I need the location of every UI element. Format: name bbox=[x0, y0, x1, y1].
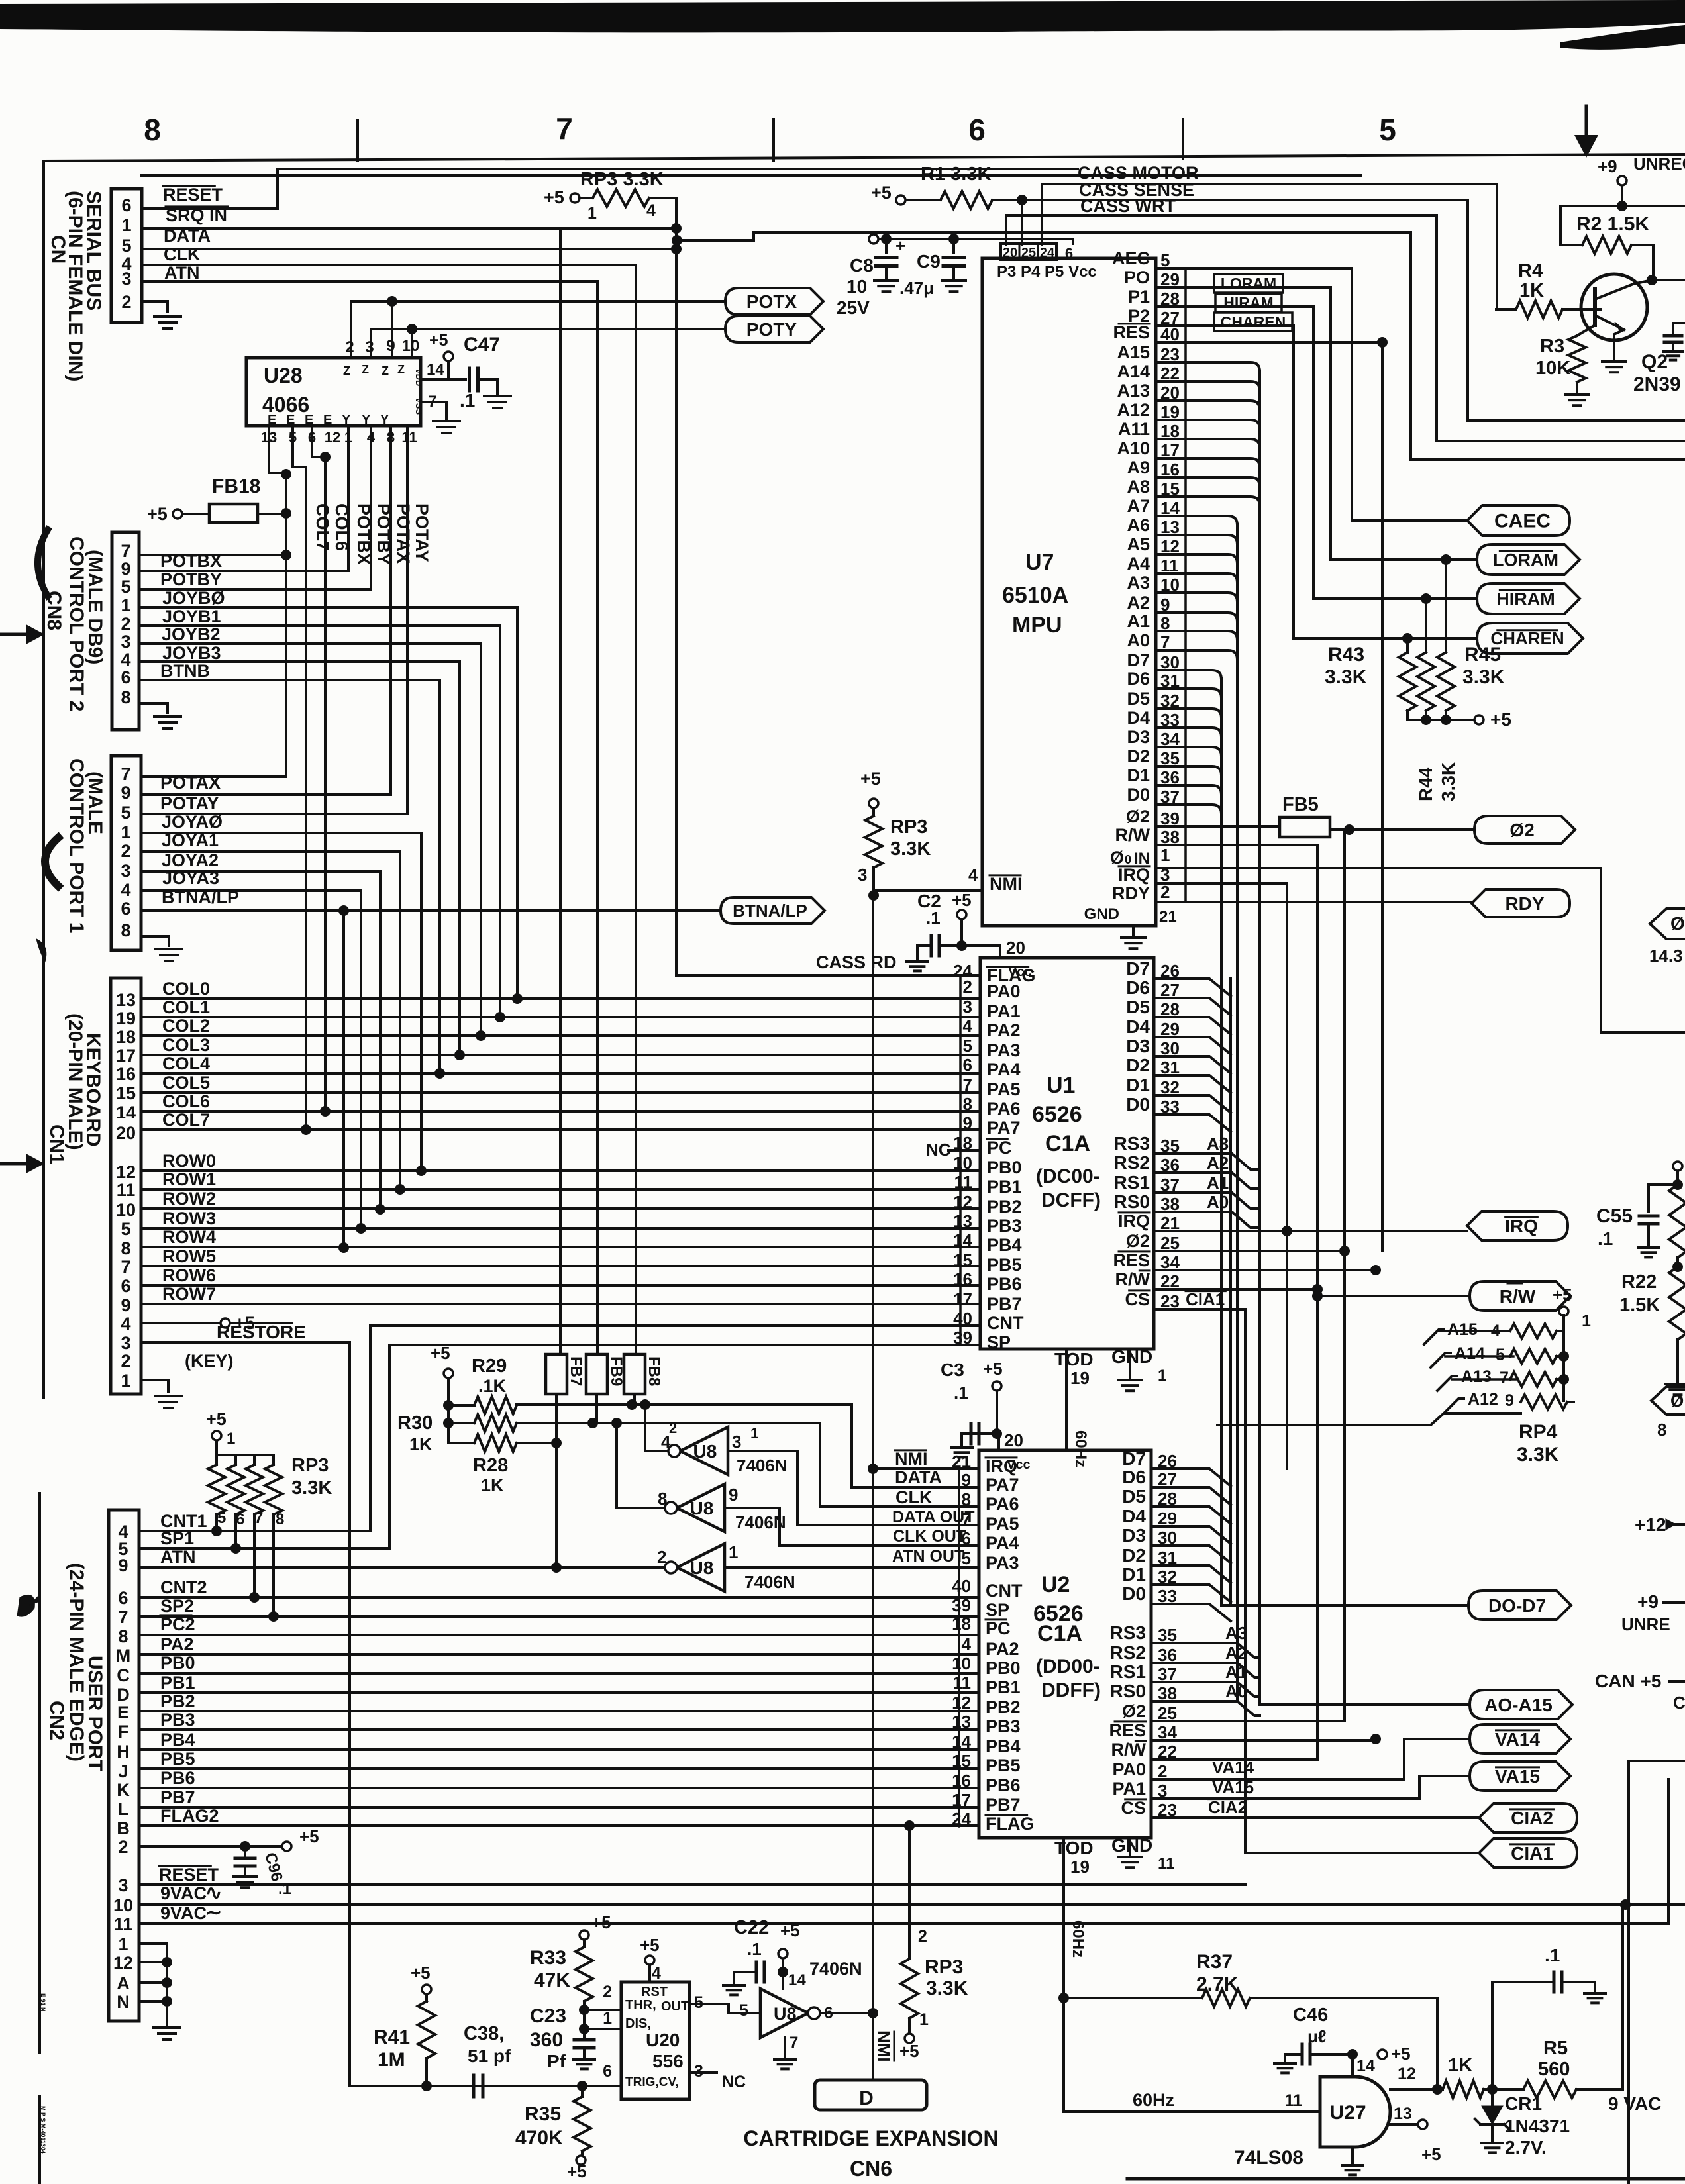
wire HIRAM net bbox=[1156, 307, 1313, 599]
U7 right pin ladder bbox=[1184, 268, 1187, 901]
svg-text:+: + bbox=[895, 236, 905, 256]
svg-text:VDD: VDD bbox=[414, 368, 424, 386]
svg-text:4: 4 bbox=[646, 201, 656, 220]
wire JOYB2 bbox=[139, 642, 481, 645]
svg-text:ROW4: ROW4 bbox=[162, 1227, 216, 1247]
flag VA14 bbox=[1470, 1724, 1570, 1754]
svg-text:DCFF): DCFF) bbox=[1041, 1189, 1101, 1211]
svg-text:+5: +5 bbox=[983, 1359, 1003, 1379]
svg-text:6: 6 bbox=[1065, 245, 1073, 262]
svg-text:Ø: Ø bbox=[1670, 913, 1685, 934]
svg-text:U8: U8 bbox=[690, 1558, 714, 1578]
svg-text:14: 14 bbox=[116, 1103, 136, 1122]
svg-text:A2: A2 bbox=[1127, 593, 1150, 613]
connector CN2 user port box bbox=[109, 1510, 139, 2021]
svg-text:PB2: PB2 bbox=[160, 1691, 195, 1711]
svg-text:CIA1: CIA1 bbox=[1511, 1843, 1553, 1863]
svg-text:47K: 47K bbox=[534, 1969, 570, 1991]
svg-text:U20: U20 bbox=[646, 2030, 680, 2050]
wire RESTORE bbox=[141, 1342, 350, 2086]
wire CHAREN net bbox=[1156, 326, 1294, 638]
svg-text:ROW6: ROW6 bbox=[162, 1266, 216, 1285]
svg-text:556: 556 bbox=[652, 2051, 684, 2071]
svg-text:D4: D4 bbox=[1122, 1506, 1146, 1526]
wire R30 row bbox=[517, 1422, 820, 1424]
svg-text:7: 7 bbox=[121, 1257, 130, 1277]
wire FB9 bottom bbox=[595, 1394, 598, 1423]
svg-text:R37: R37 bbox=[1196, 1951, 1233, 1973]
svg-text:PA2: PA2 bbox=[987, 1020, 1021, 1040]
svg-text:5: 5 bbox=[121, 803, 130, 822]
wire NMI row U2 bbox=[873, 1467, 979, 1470]
flag 14.3MHz clock partial bbox=[1650, 909, 1685, 939]
flag VA15 bbox=[1470, 1762, 1570, 1791]
wire COL2 bbox=[141, 1034, 980, 1037]
wire POTBY vertical bbox=[139, 426, 371, 589]
svg-text:P1: P1 bbox=[1128, 287, 1150, 307]
svg-text:60Hz: 60Hz bbox=[1069, 1920, 1087, 1958]
svg-text:7: 7 bbox=[118, 1607, 128, 1627]
AND gate U27 74LS08 bbox=[1320, 2077, 1390, 2147]
svg-text:R45: R45 bbox=[1464, 644, 1501, 666]
svg-text:E: E bbox=[323, 413, 332, 427]
svg-text:3: 3 bbox=[121, 861, 130, 881]
svg-text:U28: U28 bbox=[264, 364, 303, 387]
svg-text:.1: .1 bbox=[278, 1880, 291, 1898]
U2 TOD 60Hz vertical bbox=[1062, 1838, 1065, 2112]
wire COL1 bbox=[141, 1016, 980, 1018]
svg-text:3.3K: 3.3K bbox=[291, 1477, 332, 1499]
svg-text:D1: D1 bbox=[1122, 1564, 1146, 1585]
flag AO-A15 row bbox=[1260, 1703, 1470, 1706]
svg-text:3.3K: 3.3K bbox=[1325, 666, 1367, 688]
wire ROW5 bbox=[141, 1265, 980, 1267]
wire ROW4 bbox=[141, 1246, 980, 1248]
svg-text:SP: SP bbox=[986, 1600, 1009, 1620]
svg-text:25: 25 bbox=[1021, 246, 1036, 260]
svg-text:51 pf: 51 pf bbox=[468, 2046, 511, 2066]
wire U2 RS to addr bus bbox=[1151, 1643, 1260, 1658]
svg-text:3: 3 bbox=[118, 1875, 128, 1895]
svg-text:JOYB2: JOYB2 bbox=[162, 624, 221, 644]
svg-text:3.3K: 3.3K bbox=[1517, 1444, 1559, 1465]
svg-text:VA14: VA14 bbox=[1495, 1729, 1540, 1750]
wire JOYA1 bbox=[141, 850, 400, 853]
svg-text:Pf: Pf bbox=[547, 2051, 566, 2071]
svg-text:9: 9 bbox=[121, 783, 130, 803]
wire phi0 in bbox=[1156, 868, 1685, 1032]
svg-text:12: 12 bbox=[1398, 2065, 1416, 2083]
svg-text:14: 14 bbox=[788, 1971, 806, 1989]
svg-text:A: A bbox=[117, 1973, 130, 1993]
svg-text:PB2: PB2 bbox=[987, 1197, 1022, 1216]
svg-text:R/W: R/W bbox=[1115, 825, 1150, 845]
svg-text:8: 8 bbox=[118, 1626, 128, 1646]
svg-text:4: 4 bbox=[121, 1314, 130, 1334]
svg-text:+9: +9 bbox=[1598, 156, 1617, 176]
svg-text:A7: A7 bbox=[1127, 496, 1150, 516]
svg-text:8: 8 bbox=[658, 1489, 667, 1509]
svg-text:A13: A13 bbox=[1461, 1367, 1492, 1386]
svg-text:PA0: PA0 bbox=[1112, 1760, 1146, 1779]
wire ROW2 bbox=[141, 1207, 980, 1210]
svg-text:2: 2 bbox=[121, 841, 130, 861]
svg-text:PB0: PB0 bbox=[987, 1158, 1022, 1177]
junction bbox=[320, 452, 331, 462]
svg-text:C8: C8 bbox=[850, 255, 874, 275]
svg-text:Q2: Q2 bbox=[1641, 351, 1668, 373]
junction FB5 bbox=[1344, 824, 1354, 835]
svg-text:(MALE DB9): (MALE DB9) bbox=[84, 550, 106, 664]
svg-text:MPU: MPU bbox=[1012, 613, 1062, 638]
ground C47 bbox=[484, 395, 511, 397]
wire CP1 pin7 bbox=[141, 775, 286, 778]
wire user port row bbox=[139, 1824, 979, 1827]
svg-text:1: 1 bbox=[1160, 845, 1170, 865]
svg-text:R44: R44 bbox=[1415, 767, 1436, 801]
svg-text:R41: R41 bbox=[374, 2026, 410, 2048]
svg-text:PB5: PB5 bbox=[160, 1749, 195, 1769]
svg-text:3: 3 bbox=[121, 1333, 130, 1353]
svg-text:POTY: POTY bbox=[746, 319, 797, 340]
svg-text:D4: D4 bbox=[1127, 708, 1150, 728]
svg-text:1: 1 bbox=[750, 1425, 758, 1442]
svg-text:PA2: PA2 bbox=[160, 1634, 194, 1654]
wire U2 PA0 VA14 bbox=[1151, 1739, 1470, 1779]
svg-text:A1: A1 bbox=[1207, 1173, 1229, 1193]
svg-text:3: 3 bbox=[858, 865, 867, 885]
svg-text:PB3: PB3 bbox=[987, 1216, 1022, 1236]
svg-text:7: 7 bbox=[963, 1075, 972, 1095]
svg-text:5: 5 bbox=[963, 1036, 972, 1056]
wire R29 row bbox=[517, 1403, 852, 1406]
svg-text:R43: R43 bbox=[1328, 644, 1364, 666]
wire serial pin2 to ground bbox=[142, 301, 168, 311]
scan artifact blob bbox=[17, 1595, 34, 1616]
svg-text:11: 11 bbox=[954, 1172, 973, 1192]
svg-text:A12: A12 bbox=[1468, 1390, 1498, 1409]
svg-text:9: 9 bbox=[963, 1113, 972, 1133]
svg-text:C1A: C1A bbox=[1037, 1621, 1082, 1646]
svg-text:8: 8 bbox=[121, 920, 130, 940]
svg-text:9VAC: 9VAC bbox=[160, 1883, 207, 1903]
sheet arrow left CP area bbox=[0, 633, 26, 636]
svg-text:PB7: PB7 bbox=[986, 1795, 1021, 1814]
flag phi2 bbox=[1474, 816, 1575, 844]
svg-text:6: 6 bbox=[121, 668, 130, 687]
wire U7 address bus bbox=[1156, 362, 1260, 372]
svg-text:1: 1 bbox=[1582, 1312, 1591, 1330]
svg-text:25V: 25V bbox=[837, 297, 870, 318]
wire U8d out to NMI bbox=[820, 2012, 873, 2014]
IC U28 4066 box bbox=[246, 358, 421, 426]
svg-text:RES: RES bbox=[1113, 1250, 1150, 1270]
svg-text:UNRE: UNRE bbox=[1621, 1614, 1670, 1634]
svg-text:COL6: COL6 bbox=[332, 503, 352, 551]
ferrite bead FB8 bbox=[624, 1354, 645, 1394]
wire CIA1 flag row bbox=[1245, 1852, 1479, 1854]
svg-text:13: 13 bbox=[116, 990, 136, 1010]
svg-text:CHAREN: CHAREN bbox=[1221, 313, 1286, 330]
svg-text:PA0: PA0 bbox=[987, 981, 1021, 1001]
svg-text:HIRAM: HIRAM bbox=[1223, 294, 1273, 311]
svg-text:FLAG2: FLAG2 bbox=[160, 1806, 219, 1826]
svg-text:CASS RD: CASS RD bbox=[816, 952, 897, 972]
svg-text:JOYAØ: JOYAØ bbox=[162, 812, 223, 832]
wire RESET bbox=[142, 169, 1078, 209]
wire user port row bbox=[139, 1767, 979, 1770]
svg-text:A0: A0 bbox=[1225, 1681, 1247, 1701]
svg-text:20: 20 bbox=[1003, 246, 1017, 260]
wire user port row bbox=[139, 1691, 979, 1694]
transistor Q2 2N3904 bbox=[1581, 274, 1647, 340]
svg-text:1: 1 bbox=[121, 822, 130, 842]
svg-text:HIRAM: HIRAM bbox=[1496, 589, 1555, 609]
svg-text:4: 4 bbox=[652, 1964, 661, 1983]
wire user port row bbox=[139, 1653, 979, 1656]
svg-text:8: 8 bbox=[1657, 1420, 1666, 1440]
svg-text:DO-D7: DO-D7 bbox=[1488, 1595, 1546, 1616]
svg-text:10K: 10K bbox=[1535, 358, 1570, 379]
svg-text:PA5: PA5 bbox=[987, 1079, 1021, 1099]
svg-text:CAEC: CAEC bbox=[1494, 511, 1551, 532]
wire JOYB0 bbox=[139, 606, 517, 609]
flag IRQ bbox=[1467, 1211, 1568, 1240]
svg-text:AEC: AEC bbox=[1112, 248, 1150, 268]
svg-text:1: 1 bbox=[587, 204, 597, 223]
right area box outline bbox=[1629, 1761, 1685, 2184]
svg-text:2: 2 bbox=[963, 977, 972, 997]
svg-text:2: 2 bbox=[345, 338, 354, 356]
wire U2 PA1 VA15 bbox=[1151, 1776, 1470, 1799]
svg-text:12: 12 bbox=[953, 1192, 972, 1212]
junction ATN bbox=[551, 1562, 562, 1573]
wire U2 phi2 row bbox=[1151, 1720, 1345, 1722]
svg-text:4: 4 bbox=[962, 1634, 972, 1654]
svg-text:10: 10 bbox=[953, 1153, 972, 1173]
svg-text:5: 5 bbox=[121, 236, 131, 256]
wire TRIG row bbox=[350, 2085, 621, 2087]
wire CNT1 bbox=[139, 1326, 370, 1531]
wire ROW6 bbox=[141, 1284, 980, 1287]
svg-text:6: 6 bbox=[963, 1055, 972, 1075]
svg-text:P3 P4 P5 Vcc: P3 P4 P5 Vcc bbox=[997, 263, 1097, 281]
ferrite bead FB9 bbox=[586, 1354, 607, 1394]
svg-text:9: 9 bbox=[729, 1485, 738, 1505]
svg-text:6526: 6526 bbox=[1032, 1102, 1082, 1127]
svg-text:D5: D5 bbox=[1122, 1486, 1146, 1507]
svg-text:17: 17 bbox=[953, 1289, 972, 1309]
wire ROW3 bbox=[141, 1227, 980, 1230]
svg-text:1K: 1K bbox=[481, 1475, 504, 1495]
wire user pins 1-12-A-N common bbox=[139, 1944, 167, 2021]
wire ROW0 bbox=[141, 1169, 980, 1172]
flag BTNA/LP bbox=[721, 897, 825, 924]
svg-text:ROW0: ROW0 bbox=[162, 1151, 216, 1171]
flag RDY bbox=[1472, 889, 1570, 917]
svg-text:POTAX: POTAX bbox=[393, 503, 413, 564]
svg-text:20: 20 bbox=[1004, 1430, 1023, 1450]
svg-text:CARTRIDGE EXPANSION: CARTRIDGE EXPANSION bbox=[743, 2126, 998, 2150]
wire NMI to U7 bbox=[874, 889, 982, 892]
address bus vertical A15-A8 bbox=[1258, 371, 1261, 1705]
wire POTX bbox=[351, 301, 725, 358]
wire U2 R/W row bbox=[1151, 1758, 1317, 1761]
wire 60Hz to U27 bbox=[1064, 2110, 1320, 2113]
svg-text:2: 2 bbox=[121, 614, 130, 634]
sheet arrow left keyboard area bbox=[0, 1162, 26, 1166]
svg-text:19: 19 bbox=[1070, 1857, 1090, 1877]
svg-text:F: F bbox=[118, 1722, 129, 1742]
svg-text:COL2: COL2 bbox=[162, 1016, 210, 1036]
ground bbox=[154, 315, 181, 318]
wire JOYB verticals bbox=[516, 607, 519, 999]
svg-text:U8: U8 bbox=[690, 1498, 714, 1518]
svg-text:PA1: PA1 bbox=[1112, 1779, 1146, 1799]
svg-text:6: 6 bbox=[121, 899, 130, 918]
bottom title block edge bbox=[1127, 2177, 1685, 2181]
junction POTX pin9 bbox=[387, 296, 397, 307]
svg-text:COL5: COL5 bbox=[162, 1073, 210, 1093]
svg-text:.1: .1 bbox=[747, 1939, 762, 1959]
svg-text:360: 360 bbox=[530, 2029, 563, 2051]
svg-text:21: 21 bbox=[1159, 908, 1177, 926]
inverter U8b 7406 bbox=[617, 1507, 665, 1509]
svg-text:.1K: .1K bbox=[478, 1376, 507, 1396]
svg-text:RDY: RDY bbox=[1112, 883, 1150, 903]
wire RP4 A12 feed bbox=[1217, 1413, 1521, 1425]
svg-text:R22: R22 bbox=[1621, 1271, 1657, 1293]
svg-text:14: 14 bbox=[952, 1732, 971, 1752]
svg-text:D7: D7 bbox=[1127, 650, 1150, 670]
svg-text:PC: PC bbox=[987, 1138, 1012, 1158]
svg-text:R5: R5 bbox=[1543, 2038, 1568, 2059]
svg-text:2: 2 bbox=[657, 1547, 666, 1567]
svg-text:FB5: FB5 bbox=[1282, 794, 1319, 815]
wire JOYB3 bbox=[139, 660, 460, 663]
svg-text:U1: U1 bbox=[1047, 1073, 1075, 1098]
svg-text:6: 6 bbox=[968, 113, 986, 147]
flag DO-D7 row bbox=[1231, 1604, 1468, 1607]
svg-text:C3: C3 bbox=[941, 1360, 964, 1380]
svg-text:RS3: RS3 bbox=[1110, 1622, 1146, 1643]
svg-text:PA7: PA7 bbox=[987, 1118, 1021, 1138]
svg-text:COL4: COL4 bbox=[162, 1054, 210, 1073]
svg-text:Z: Z bbox=[397, 363, 405, 376]
wire RESET user bbox=[139, 1883, 1245, 1886]
U8d ground bbox=[784, 2038, 786, 2057]
svg-text:Y: Y bbox=[362, 413, 371, 427]
svg-text:IRQ: IRQ bbox=[1505, 1216, 1538, 1236]
svg-text:CLK: CLK bbox=[164, 244, 201, 264]
svg-text:FB7: FB7 bbox=[567, 1356, 585, 1386]
wire CP2 pin8 ground bbox=[139, 703, 168, 713]
svg-text:+5: +5 bbox=[871, 183, 892, 203]
svg-text:9: 9 bbox=[121, 1295, 130, 1315]
svg-text:COL7: COL7 bbox=[162, 1110, 210, 1130]
svg-text:+5: +5 bbox=[1421, 2144, 1441, 2164]
svg-text:R2 1.5K: R2 1.5K bbox=[1576, 213, 1649, 235]
svg-text:IRQ: IRQ bbox=[1118, 865, 1150, 885]
svg-text:RES: RES bbox=[1113, 323, 1150, 342]
svg-text:FLAG: FLAG bbox=[986, 1814, 1035, 1834]
svg-text:.1: .1 bbox=[1598, 1228, 1613, 1249]
svg-text:.1: .1 bbox=[926, 908, 941, 928]
svg-text:Ø2: Ø2 bbox=[1509, 820, 1534, 840]
svg-text:IRQ: IRQ bbox=[986, 1456, 1017, 1476]
svg-text:RP3 3.3K: RP3 3.3K bbox=[580, 169, 664, 190]
wire POTAY vertical bbox=[141, 426, 407, 814]
svg-text:U8: U8 bbox=[774, 2004, 797, 2024]
svg-text:8: 8 bbox=[144, 113, 161, 147]
scan artifact parenthesis bbox=[38, 530, 48, 596]
svg-text:4: 4 bbox=[963, 1016, 973, 1036]
svg-text:A14: A14 bbox=[1455, 1344, 1485, 1363]
svg-text:3.3K: 3.3K bbox=[926, 1977, 968, 1999]
svg-text:U7: U7 bbox=[1025, 550, 1054, 575]
wire serial verticals to FBs bbox=[559, 228, 562, 1354]
svg-text:16: 16 bbox=[953, 1269, 972, 1289]
svg-text:PA2: PA2 bbox=[986, 1639, 1019, 1659]
wire U8c out to ATN OUT bbox=[725, 1566, 979, 1569]
svg-text:C22: C22 bbox=[734, 1917, 769, 1938]
svg-text:R29: R29 bbox=[472, 1356, 507, 1377]
svg-text:15: 15 bbox=[952, 1751, 971, 1771]
svg-text:2.7V.: 2.7V. bbox=[1505, 2137, 1547, 2158]
svg-text:16: 16 bbox=[952, 1771, 971, 1791]
wire POTBX vertical bbox=[139, 426, 348, 571]
svg-text:RS0: RS0 bbox=[1114, 1191, 1150, 1212]
wire user port row bbox=[139, 1615, 979, 1618]
wire NC dash bbox=[948, 1149, 980, 1152]
svg-text:14: 14 bbox=[953, 1230, 972, 1250]
svg-text:5: 5 bbox=[121, 577, 130, 597]
svg-text:18: 18 bbox=[952, 1614, 971, 1634]
svg-text:RP4: RP4 bbox=[1519, 1421, 1558, 1443]
svg-text:BTNB: BTNB bbox=[160, 661, 210, 681]
svg-text:40: 40 bbox=[953, 1309, 972, 1328]
svg-text:12: 12 bbox=[325, 429, 340, 446]
svg-text:PB2: PB2 bbox=[986, 1697, 1021, 1717]
wire U1 R/W row bbox=[1154, 1288, 1317, 1291]
svg-text:K: K bbox=[117, 1780, 130, 1800]
wire NMI vertical bbox=[872, 895, 874, 2080]
svg-text:18: 18 bbox=[116, 1027, 136, 1047]
svg-text:C46: C46 bbox=[1293, 2005, 1328, 2026]
svg-text:PA4: PA4 bbox=[987, 1060, 1021, 1079]
svg-text:40: 40 bbox=[952, 1576, 971, 1596]
svg-text:8: 8 bbox=[963, 1094, 972, 1114]
wire user port row bbox=[139, 1634, 979, 1636]
wire ROW7 bbox=[141, 1303, 980, 1305]
svg-text:(DC00-: (DC00- bbox=[1036, 1166, 1100, 1187]
svg-text:11: 11 bbox=[114, 1914, 133, 1934]
wire to U1 vcc bbox=[999, 946, 1001, 958]
svg-text:CAN +5: CAN +5 bbox=[1595, 1671, 1661, 1691]
flag HIRAM bbox=[1313, 597, 1477, 600]
ferrite bead FB7 bbox=[546, 1354, 567, 1394]
svg-text:COL3: COL3 bbox=[162, 1035, 210, 1055]
svg-text:11: 11 bbox=[117, 1180, 136, 1200]
svg-text:A14: A14 bbox=[1117, 362, 1150, 381]
svg-text:Z: Z bbox=[343, 364, 350, 377]
svg-text:19: 19 bbox=[116, 1009, 136, 1028]
svg-text:PB4: PB4 bbox=[987, 1235, 1022, 1255]
svg-text:COL7: COL7 bbox=[313, 503, 332, 551]
svg-text:B: B bbox=[117, 1818, 130, 1838]
left border line bbox=[42, 161, 45, 1397]
wire 9VAC 2 bbox=[139, 1779, 1668, 1924]
